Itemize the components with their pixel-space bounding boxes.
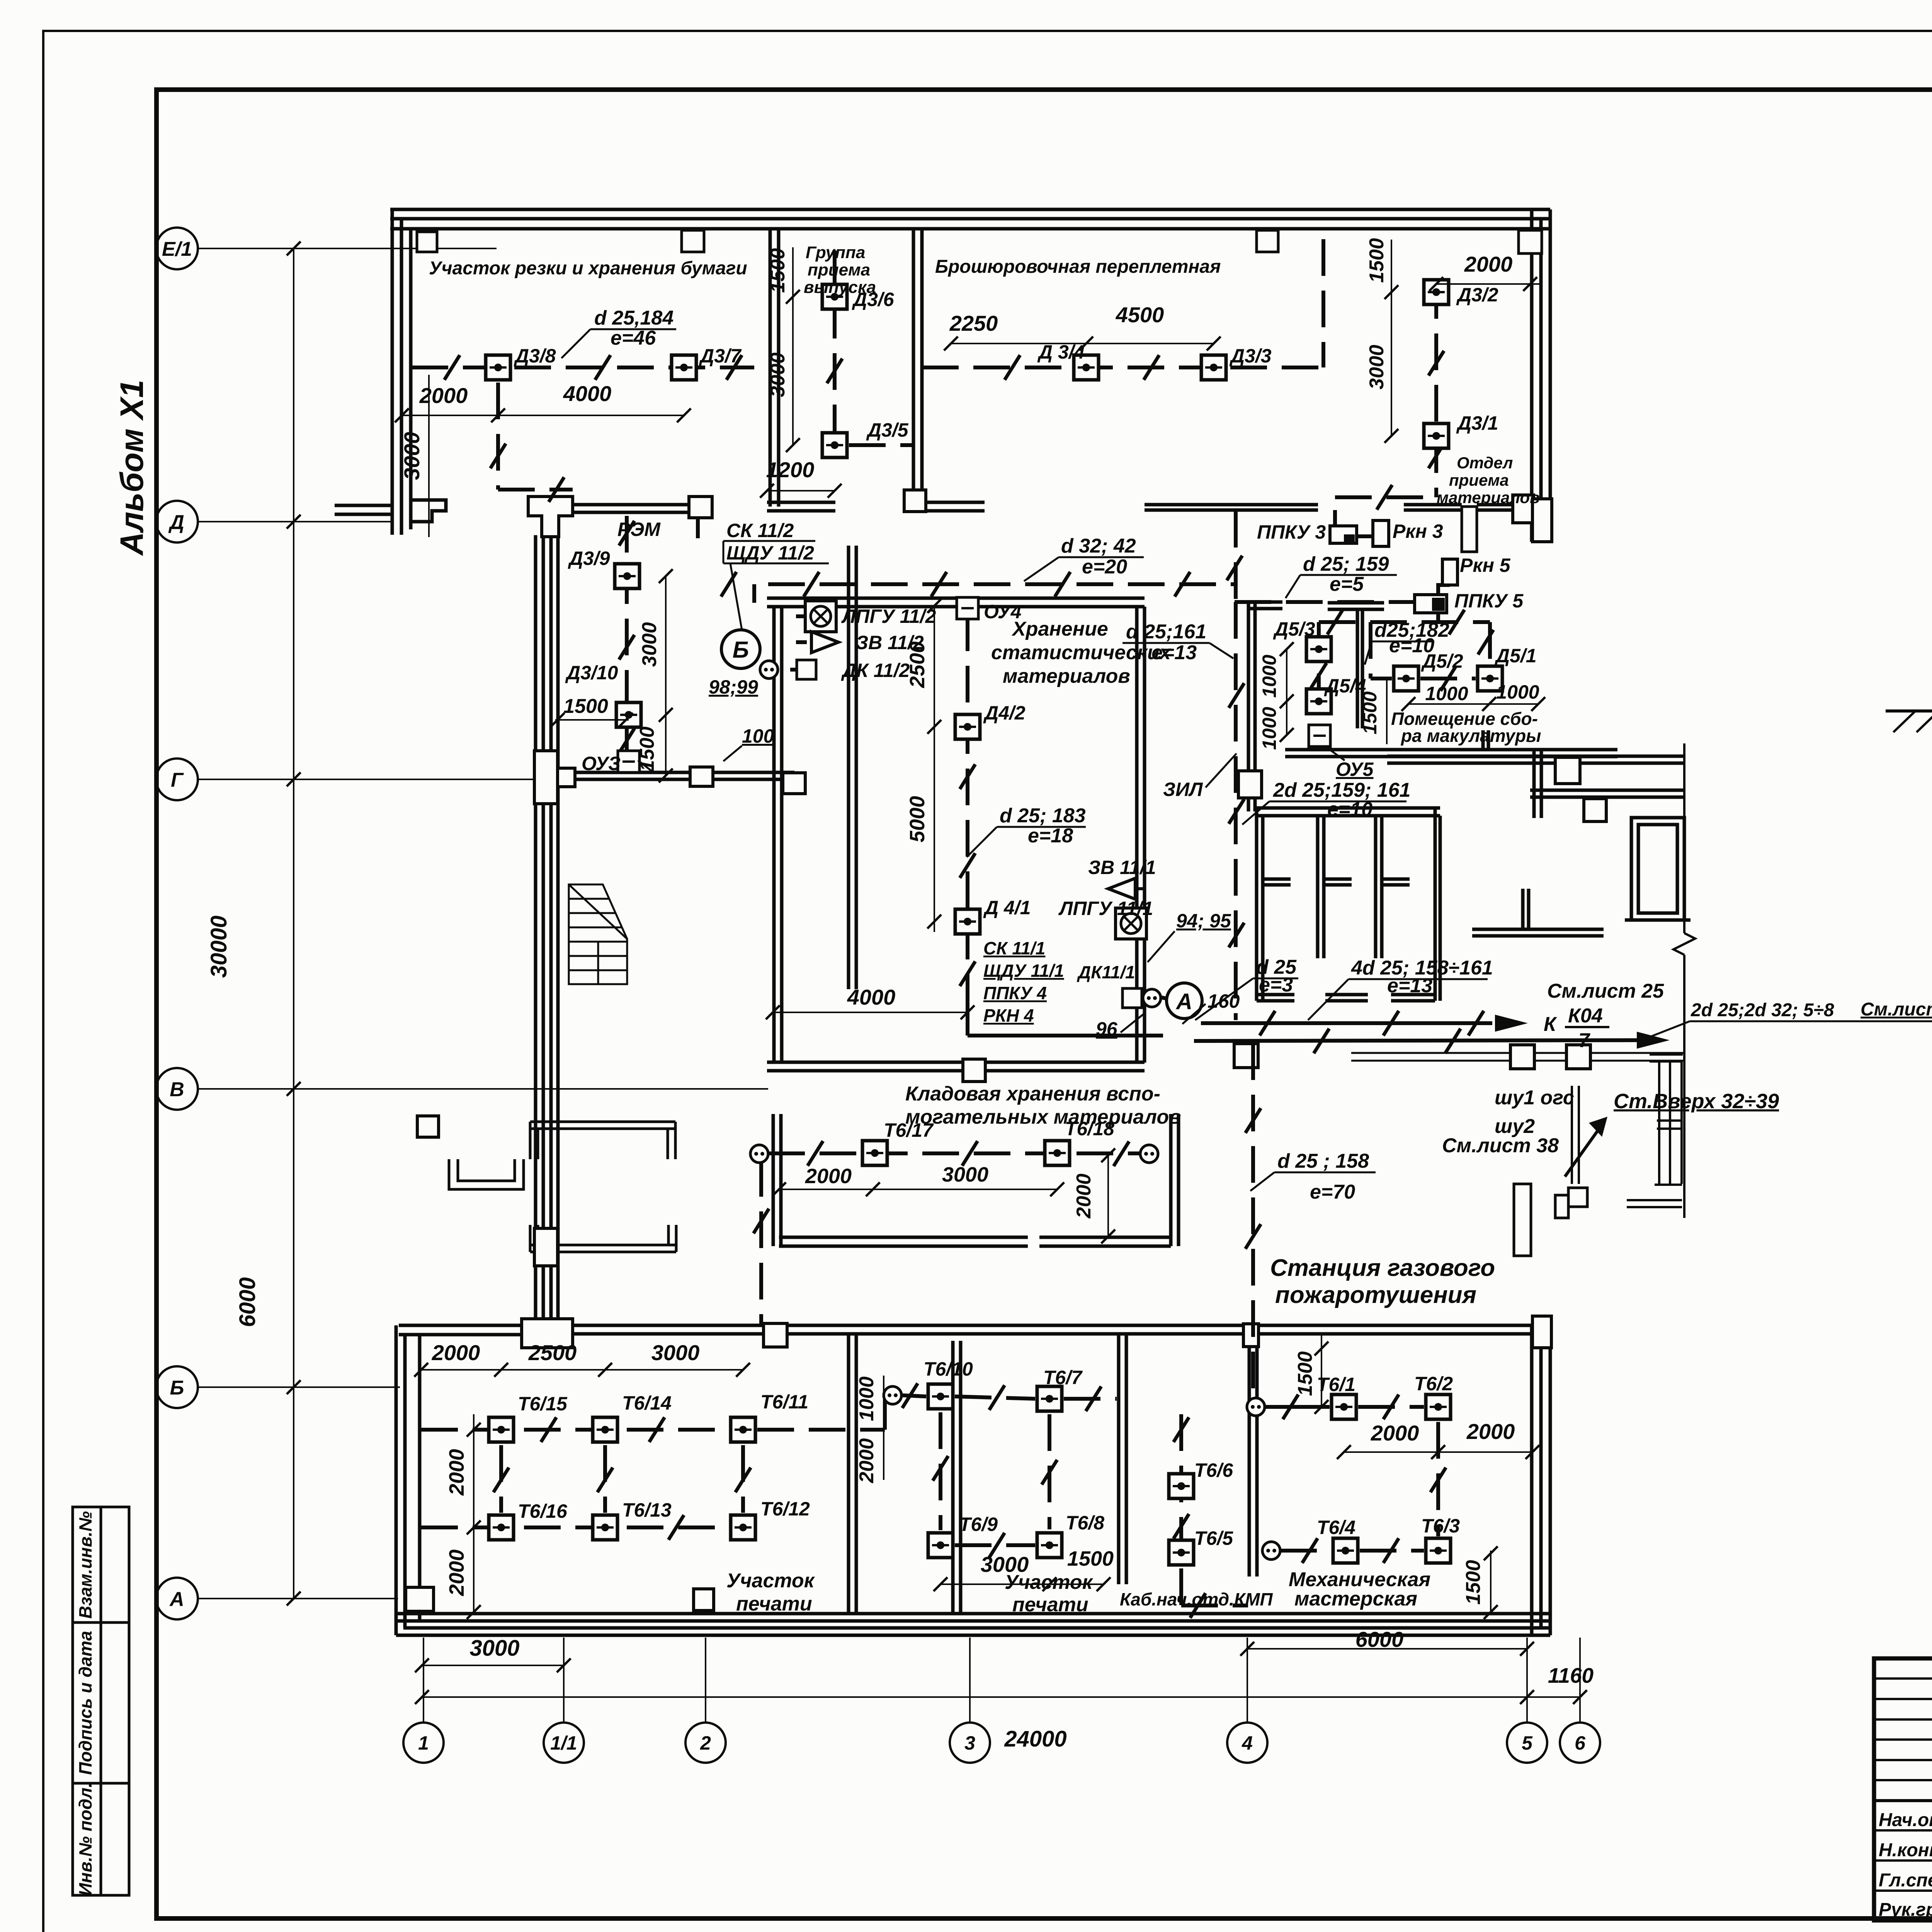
mid cluster rooms [1257,806,1440,810]
B node labels [709,605,936,747]
svg-text:Д3/7: Д3/7 [699,345,742,367]
svg-text:2000: 2000 [445,1449,468,1496]
svg-text:Т6/4: Т6/4 [1317,1517,1355,1538]
svg-text:ОУ4: ОУ4 [984,601,1021,622]
right corridor bands [1387,755,1684,758]
svg-text:Д3/2: Д3/2 [1456,284,1498,306]
storage room right wall [1135,607,1139,1063]
svg-text:ЩДУ 11/2: ЩДУ 11/2 [726,542,814,564]
svg-text:шу1 огс: шу1 огс [1495,1087,1574,1109]
svg-text:материалов: материалов [1437,488,1539,507]
svg-text:Гл.спец.: Гл.спец. [1879,1870,1932,1891]
svg-text:СК 11/2: СК 11/2 [726,520,794,541]
arrows [1495,1015,1528,1032]
svg-text:Д 4/1: Д 4/1 [983,897,1031,918]
RKN3 [1373,520,1389,546]
svg-text:6000: 6000 [235,1277,260,1327]
leader underlines [561,329,1488,1191]
bottom block interior walls [847,1334,850,1614]
svg-text:3000: 3000 [400,432,424,480]
svg-text:Кладовая хранения вспо-: Кладовая хранения вспо- [905,1083,1160,1105]
svg-text:пожаротушения: пожаротушения [1275,1282,1476,1308]
svg-text:ППКУ 3: ППКУ 3 [1257,521,1326,543]
svg-text:Ст.Вверх 32÷39: Ст.Вверх 32÷39 [1614,1090,1779,1113]
svg-text:Т6/13: Т6/13 [622,1499,672,1521]
right outer wall bottom block [1530,1325,1534,1635]
svg-text:1000: 1000 [855,1376,878,1421]
svg-text:2000: 2000 [805,1165,852,1188]
svg-text:В: В [170,1078,184,1101]
svg-text:98;99: 98;99 [709,676,758,698]
storage room left wall [772,607,776,1063]
stairs [569,884,627,984]
svg-text:ДК 11/2: ДК 11/2 [841,660,910,681]
D3/8 drop and elbow [496,383,500,490]
svg-text:3: 3 [964,1732,975,1754]
cable marking labels with underline [594,307,1932,1203]
ZV 11/1 bell triangle [1108,878,1135,899]
detector Т6/9 and detector Т6/8 [928,1533,953,1558]
ZV 11/2 bell triangle [811,632,838,653]
bottom-left outer wall [395,1325,398,1635]
D-axis wall right part [1145,503,1318,507]
d25;161 drop [1234,511,1238,602]
svg-text:печати: печати [736,1593,812,1615]
svg-text:Д5/3: Д5/3 [1273,618,1315,640]
detector Д5/3 and detector Д5/4 [1306,637,1331,662]
right outline with break [1683,743,1685,933]
svg-text:3000: 3000 [638,622,661,667]
svg-text:3000: 3000 [469,1636,519,1661]
LPGU 11/2 symbol [805,601,836,632]
svg-text:мастерская: мастерская [1294,1588,1417,1610]
wire row D3/8-D3/7 [412,366,754,369]
svg-text:ЗВ 11/2: ЗВ 11/2 [856,632,924,653]
left upper outer wall [391,209,394,535]
svg-text:Т6/3: Т6/3 [1421,1515,1460,1537]
svg-text:d 25,184: d 25,184 [594,307,673,329]
svg-text:Т6/5: Т6/5 [1194,1527,1233,1549]
detectors Т6/16 Т6/13 Т6/12 [489,1515,514,1540]
svg-text:См.лист 38: См.лист 38 [1442,1134,1559,1157]
svg-text:Участок: Участок [1005,1571,1094,1594]
svg-text:ППКУ 4: ППКУ 4 [983,983,1047,1003]
svg-text:ОУ5: ОУ5 [1336,759,1374,780]
mekh room feeds [1265,1405,1330,1409]
PPKU5 [1415,595,1447,613]
detector Д3/9 and detector Д3/10 [615,564,639,588]
svg-text:Т6/15: Т6/15 [518,1393,568,1415]
svg-text:96: 96 [1096,1018,1118,1040]
svg-text:4500: 4500 [1116,303,1164,327]
pechat feeds [759,1160,763,1325]
svg-text:2000: 2000 [1464,252,1513,276]
svg-text:Е/1: Е/1 [162,238,192,260]
svg-text:3000: 3000 [942,1163,988,1186]
svg-text:ППКУ 5: ППКУ 5 [1454,590,1524,612]
left margin label strip [73,1507,129,1895]
ground A [1886,709,1932,713]
wire D3/6-D3/5 vertical [833,250,837,445]
LPGU 11/1 symbol [1116,908,1146,939]
svg-text:приема: приема [808,260,870,279]
mid-left outer wall [534,535,537,1332]
G-stub wall [1472,928,1604,931]
svg-text:e=13: e=13 [1387,975,1432,997]
svg-text:РКН 4: РКН 4 [983,1005,1034,1026]
storeroom bottom wall (kladovaya) [767,1061,1145,1064]
D-axis porch stub [335,504,394,507]
svg-text:Д3/8: Д3/8 [514,345,556,367]
A node labels [1058,857,1240,1040]
svg-text:2d 25;2d 32; 5÷8: 2d 25;2d 32; 5÷8 [1690,1000,1834,1020]
svg-text:Д5/4: Д5/4 [1324,675,1366,697]
svg-text:e=18: e=18 [1028,825,1073,847]
svg-text:2250: 2250 [949,311,998,335]
svg-text:6: 6 [1575,1732,1586,1754]
svg-text:2000: 2000 [1466,1419,1515,1444]
svg-text:Т6/1: Т6/1 [1317,1374,1355,1395]
leader lines for labels [638,747,1345,787]
svg-text:Н.контр.: Н.контр. [1879,1840,1932,1861]
svg-text:Участок: Участок [726,1570,815,1592]
svg-text:Д3/6: Д3/6 [852,289,895,310]
svg-text:А: А [169,1588,184,1611]
svg-text:1000: 1000 [1425,683,1468,704]
svg-text:94; 95: 94; 95 [1176,910,1231,932]
svg-text:2000: 2000 [1371,1421,1419,1445]
svg-text:5: 5 [1522,1732,1533,1754]
svg-text:Нач.отд.: Нач.отд. [1879,1810,1932,1830]
svg-text:2000: 2000 [419,383,468,408]
svg-text:1500: 1500 [767,248,789,293]
svg-text:ЗВ 11/1: ЗВ 11/1 [1088,857,1156,878]
shu equipment cluster [1514,1184,1587,1256]
svg-text:ЗИЛ: ЗИЛ [1163,779,1203,800]
svg-text:Д3/5: Д3/5 [866,419,909,441]
svg-text:могательных материалов: могательных материалов [905,1106,1181,1128]
svg-text:Группа: Группа [806,243,865,262]
D5 room wiring [1317,622,1321,725]
svg-text:e=70: e=70 [1310,1181,1355,1203]
svg-text:2000: 2000 [432,1340,480,1365]
svg-text:d 25; 183: d 25; 183 [1000,804,1086,827]
bottom axis circles [403,1723,1600,1763]
SK11/1 stack [983,938,1135,1026]
D3/9-D3/10 chain [625,516,629,751]
detectors Т6/15 Т6/14 Т6/11 [489,1417,514,1442]
light annunciators ОУ3 ОУ4 ОУ5 [618,597,1330,772]
pipe lines along lower corridor [1351,1052,1684,1054]
svg-text:e=3: e=3 [1259,974,1293,996]
svg-text:e=20: e=20 [1082,556,1127,578]
svg-text:160: 160 [1207,990,1240,1012]
svg-text:3000: 3000 [1366,345,1388,389]
svg-text:2000: 2000 [1073,1173,1095,1219]
svg-text:d 25 ; 158: d 25 ; 158 [1277,1150,1369,1172]
OU4-D4/2-D4/1 vertical [966,614,969,1009]
svg-text:30000: 30000 [206,915,231,978]
svg-text:Брошюровочная переплетная: Брошюровочная переплетная [935,257,1221,277]
svg-text:d 25; 159: d 25; 159 [1303,553,1389,575]
svg-text:1200: 1200 [766,457,815,482]
svg-text:Инв.№ подл.: Инв.№ подл. [75,1783,95,1896]
svg-text:Д3/3: Д3/3 [1229,345,1272,367]
svg-text:СК 11/1: СК 11/1 [983,938,1045,958]
svg-text:Отдел: Отдел [1457,454,1513,472]
svg-text:Д 3/4: Д 3/4 [1037,341,1085,363]
svg-text:100: 100 [742,725,774,747]
svg-text:Ркн 3: Ркн 3 [1393,520,1443,542]
detector Д3/8 and detector Д3/7 [486,355,510,380]
svg-text:d 25;161: d 25;161 [1126,621,1206,643]
svg-text:Д: Д [168,511,184,534]
ZIL vertical [1234,602,1238,1020]
svg-text:24000: 24000 [1004,1726,1066,1752]
junction boxes lower corridor [1510,1045,1534,1069]
svg-text:А: А [1175,989,1192,1014]
svg-text:См.лист 25: См.лист 25 [1547,980,1664,1002]
T6/17-T6/18 row [768,1151,1140,1155]
wall fragment square left of mid wall [417,1116,439,1137]
bottom outer wall [396,1612,1550,1616]
svg-text:Т6/8: Т6/8 [1066,1512,1104,1534]
svg-text:e=13: e=13 [1151,641,1197,664]
T6/17 room walls [772,1114,775,1246]
svg-text:e=5: e=5 [1330,573,1364,595]
detector Д3/2 and detector Д3/1 [1424,280,1449,304]
svg-text:печати: печати [1012,1594,1088,1616]
svg-text:ЛПГУ 11/2: ЛПГУ 11/2 [841,605,936,627]
detector Д5/2 and detector Д5/1 [1394,666,1418,691]
svg-text:5000: 5000 [906,796,929,842]
svg-text:Подпись и дата: Подпись и дата [75,1631,95,1775]
svg-text:Б: Б [733,637,749,663]
svg-text:Хранение: Хранение [1011,618,1108,640]
G-axis wall [571,771,794,774]
svg-text:1500: 1500 [1294,1351,1316,1396]
svg-text:Т6/17: Т6/17 [884,1119,934,1141]
svg-text:РЭМ: РЭМ [617,519,661,540]
bottom-left block top wall [399,1324,524,1327]
svg-text:Д4/2: Д4/2 [983,702,1026,724]
beam brackets left of T6/17 room [530,1122,676,1252]
B-axis corridor wall segments [573,1324,764,1327]
P-bracket fragment [449,1159,524,1189]
top outer wall [390,208,1550,211]
svg-text:3000: 3000 [651,1340,700,1365]
left axis circles [156,228,198,1619]
svg-text:Т6/7: Т6/7 [1043,1367,1083,1388]
corridor main d32;42 [768,582,1236,586]
detector Т6/1 and detector Т6/2 [1332,1395,1356,1419]
svg-text:ДК11/1: ДК11/1 [1077,962,1135,982]
svg-text:К04: К04 [1568,1005,1603,1027]
svg-text:1000: 1000 [1496,681,1539,703]
window room right [1631,818,1684,920]
svg-text:2: 2 [700,1732,711,1754]
svg-text:Т6/11: Т6/11 [760,1391,808,1413]
detector Д3/6 and detector Д3/5 [822,284,847,309]
svg-text:Д3/1: Д3/1 [1456,412,1498,434]
svg-text:ЛПГУ 11/1: ЛПГУ 11/1 [1058,898,1153,919]
svg-text:ЩДУ 11/1: ЩДУ 11/1 [983,961,1064,981]
detector Т6/17 and detector Т6/18 [862,1141,887,1165]
wire D3/2-D3/1 vertical [1434,282,1438,497]
svg-text:4000: 4000 [847,985,896,1009]
svg-text:2000: 2000 [855,1438,878,1483]
svg-text:Д3/9: Д3/9 [568,548,610,569]
interior vertical wall 1 (top rooms) [769,229,772,507]
gas station feed [1251,1043,1255,1407]
svg-text:статистических: статистических [991,641,1172,664]
svg-text:Каб.нач.отд.КМП: Каб.нач.отд.КМП [1120,1589,1273,1609]
detector Т6/4 and detector Т6/3 [1333,1538,1358,1563]
PPKU3 [1330,526,1357,543]
wire row D3/4-D3/3 [922,366,1323,369]
svg-text:1500: 1500 [1067,1547,1114,1570]
svg-text:d 32; 42: d 32; 42 [1061,535,1136,557]
svg-text:1500: 1500 [563,695,608,718]
svg-text:Т6/2: Т6/2 [1414,1373,1453,1395]
svg-text:e=46: e=46 [611,327,656,349]
detector Д4/2 and detector Д4/1 [955,714,980,739]
svg-text:Т6/14: Т6/14 [622,1392,672,1414]
svg-text:7: 7 [1578,1029,1590,1052]
svg-text:К: К [1544,1013,1557,1036]
svg-text:ОУЗ: ОУЗ [582,753,621,774]
device labels [514,284,1537,1549]
svg-text:1000: 1000 [1259,707,1280,750]
detector Т6/10 and detector Т6/7 [928,1384,953,1409]
axis lines left [198,248,768,1599]
svg-text:1160: 1160 [1548,1663,1594,1687]
svg-text:4: 4 [1242,1732,1253,1754]
svg-text:материалов: материалов [1003,665,1130,687]
detector Д3/4 and detector Д3/3 [1074,355,1099,380]
svg-text:См.лист 25: См.лист 25 [1861,999,1932,1020]
RKN5 [1442,559,1458,585]
interior vertical wall 2 (top rooms) [912,229,915,507]
node B circle [721,630,760,668]
corridor wall behind stairs [847,546,850,989]
node A circle [1167,983,1202,1019]
svg-text:1500: 1500 [636,726,658,771]
solid wire pieces [754,510,1637,1041]
svg-text:2500: 2500 [528,1340,577,1365]
terminals [750,1145,768,1163]
svg-text:Т6/10: Т6/10 [923,1358,973,1380]
svg-text:Д3/10: Д3/10 [565,662,618,684]
D5 room T-wall [1328,601,1384,605]
wire slashes [444,355,460,380]
svg-text:Г: Г [171,769,184,791]
svg-text:Станция газового: Станция газового [1270,1255,1495,1281]
svg-text:Альбом X1: Альбом X1 [114,380,150,556]
svg-text:Участок резки и хранения бумаг: Участок резки и хранения бумаги [429,258,747,279]
storage room top wall [767,597,1145,600]
d25;159 e=5 line [1235,600,1415,604]
svg-text:Т6/9: Т6/9 [959,1514,998,1535]
svg-text:Т6/16: Т6/16 [518,1500,568,1522]
right outer wall upper block [1530,209,1534,542]
svg-text:e=10: e=10 [1389,634,1434,657]
DK 11/1 box [1122,988,1142,1008]
corner / junction blocks on walls [417,232,437,252]
DK 11/2 box [797,660,816,679]
D5 room bottom wall [1285,748,1617,752]
svg-text:Рук.гр.: Рук.гр. [1879,1900,1932,1920]
svg-text:4000: 4000 [563,381,612,406]
svg-text:приема: приема [1449,471,1509,489]
svg-text:1500: 1500 [1462,1560,1485,1605]
svg-text:Т6/6: Т6/6 [1194,1459,1233,1481]
svg-text:Д5/1: Д5/1 [1494,645,1537,667]
svg-text:Б: Б [170,1377,184,1399]
svg-text:Взам.инв.№: Взам.инв.№ [75,1511,95,1619]
svg-text:6000: 6000 [1355,1627,1404,1651]
svg-text:1/1: 1/1 [550,1732,577,1754]
svg-text:Т6/12: Т6/12 [760,1498,810,1520]
svg-text:Т6/18: Т6/18 [1065,1118,1114,1139]
T6/6 T6/5 [1179,1414,1183,1605]
St.Vverh arrow [1565,1122,1604,1177]
svg-text:ра макулатуры: ра макулатуры [1400,726,1541,746]
detector Т6/6 and detector Т6/5 [1169,1474,1194,1498]
svg-text:3000: 3000 [767,352,789,397]
svg-text:1: 1 [418,1732,429,1754]
svg-text:1500: 1500 [1366,238,1388,283]
svg-text:Ркн 5: Ркн 5 [1460,554,1511,576]
wall H1 (REM wall) [573,503,689,507]
svg-text:1000: 1000 [1259,655,1280,697]
svg-text:1500: 1500 [1359,691,1381,734]
svg-text:2000: 2000 [445,1549,468,1596]
